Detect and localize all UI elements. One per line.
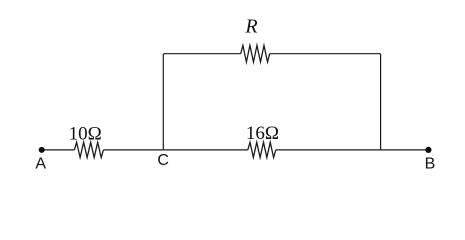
wire vertical right branch [380,54,382,150]
node A terminal dot [39,147,45,153]
node B terminal dot [425,147,431,153]
svg-text:R: R [244,15,257,37]
wire top left to resistor R [163,53,240,55]
svg-text:B: B [425,156,436,173]
wire node C to 16ohm [163,149,248,151]
svg-text:C: C [157,152,169,169]
wire resistor R to top right corner [270,53,381,55]
wire A to 10ohm [42,149,75,151]
svg-text:A: A [35,156,46,173]
wire 10ohm to node C [103,149,163,151]
resistor 10ohm zigzag [74,142,103,157]
resistor R zigzag [241,45,270,62]
svg-text:10Ω: 10Ω [69,123,102,144]
resistor 16ohm zigzag [248,142,276,157]
wire 16ohm to node B [276,149,429,151]
svg-text:16Ω: 16Ω [246,123,279,144]
wire vertical left branch at node C [162,54,164,150]
